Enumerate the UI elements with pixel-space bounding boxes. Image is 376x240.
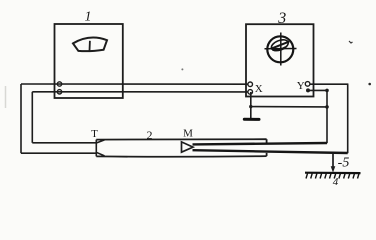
wire Y lower dot to right	[308, 89, 327, 91]
svg-text:X: X	[255, 83, 263, 95]
hatched ground 4 ticks	[306, 174, 359, 179]
wire X down to ground	[250, 92, 252, 119]
CRT beam line through ellipse	[271, 42, 289, 49]
tube left cone	[96, 140, 104, 157]
oscilloscope box 3	[246, 24, 314, 96]
CRT crosshair horizontal	[265, 48, 297, 50]
meter needle	[89, 41, 91, 51]
svg-text:2: 2	[147, 128, 153, 142]
arrow 5 head	[331, 166, 336, 172]
terminal box1 top	[57, 82, 61, 86]
wire Y terminal to right	[310, 83, 349, 85]
terminal Y lower dot	[306, 88, 310, 92]
svg-text:Y: Y	[297, 80, 305, 92]
tube 2 top wall	[96, 138, 266, 140]
speck dot far right	[368, 83, 371, 86]
svg-text:-5: -5	[338, 156, 350, 171]
svg-text:3: 3	[277, 10, 286, 27]
wire box1 to X (top)	[21, 83, 248, 85]
svg-text:M: M	[183, 128, 193, 140]
junction dot right vertical	[325, 105, 329, 109]
junction dot on X ground wire	[249, 105, 252, 108]
CRT crosshair vertical	[280, 33, 282, 66]
svg-text:1: 1	[85, 10, 92, 25]
CRT beam ellipse thick lower arc	[273, 47, 286, 50]
wire left inner horizontal to tube	[32, 142, 96, 144]
tube 2 bottom wall	[96, 155, 266, 158]
terminal box1 bottom	[57, 90, 61, 94]
terminal Y	[305, 82, 310, 87]
rod top line	[193, 143, 328, 144]
wire ground tap to right vertical	[251, 106, 327, 108]
meter dial icon	[73, 38, 107, 52]
wire vertical x327 down to rod	[326, 90, 328, 143]
wire left outer vertical	[20, 84, 22, 153]
tube right end cap top	[266, 139, 268, 142]
arrow 5 shaft	[332, 154, 334, 169]
faint left edge artifact	[5, 86, 7, 108]
meter box 1 (galvanometer)	[55, 24, 123, 98]
terminal X top	[248, 82, 253, 87]
hatched ground 4 line	[305, 172, 361, 175]
junction dot at corner	[325, 89, 329, 93]
wire left inner vertical	[31, 92, 33, 143]
speck top right	[349, 41, 353, 43]
piston triangle M	[182, 142, 194, 152]
terminal X bottom	[248, 90, 253, 95]
CRT screen circle U3	[267, 36, 293, 62]
rod bottom line	[193, 150, 348, 153]
wire right outer vertical	[347, 84, 349, 153]
speck mid	[181, 68, 183, 70]
ground bar (earth)	[244, 118, 259, 121]
wire box1 to X (bottom)	[32, 91, 248, 93]
wire left outer horizontal to tube	[21, 152, 96, 154]
tube right end cap bottom	[266, 153, 268, 156]
svg-text:4: 4	[333, 176, 339, 188]
CRT beam ellipse figure	[270, 38, 290, 53]
svg-text:T: T	[91, 128, 98, 140]
